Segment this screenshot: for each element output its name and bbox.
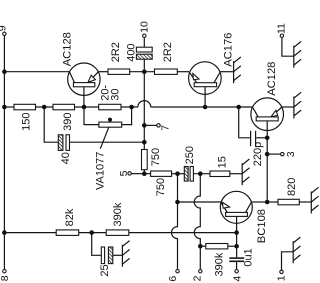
wire terminal 10 to capacitor 400	[143, 37, 145, 47]
svg-text:220p: 220p	[252, 142, 264, 166]
node A junction bus/collector T1	[2, 69, 7, 74]
wire 0u1 to terminal 4	[236, 262, 238, 269]
wire BC108 collector to node K	[252, 201, 268, 203]
svg-text:15: 15	[216, 156, 228, 168]
svg-text:VA1077: VA1077	[94, 152, 106, 190]
capacitor 250u electrolytic	[184, 167, 188, 182]
leader line VA1077	[100, 127, 109, 149]
terminal 9	[3, 32, 6, 35]
capacitor 40u electrolytic	[58, 135, 63, 151]
node I junction	[265, 136, 270, 141]
wire 2R2 to T2 emitter	[177, 71, 189, 73]
wire 750 to node O	[172, 173, 185, 175]
resistor 390k (upper)	[106, 230, 129, 236]
svg-text:11: 11	[276, 23, 288, 34]
thermistor VA1077 branch wires	[84, 107, 99, 125]
svg-text:6: 6	[167, 276, 179, 282]
wire 25u to chassis	[113, 254, 123, 256]
node R junction 390k lower	[198, 244, 203, 249]
terminal 5	[128, 172, 131, 175]
svg-text:390: 390	[62, 113, 74, 131]
wire capacitor 400 to node X	[143, 59, 145, 72]
node C junction bus/82k	[2, 230, 7, 235]
terminal 7	[157, 124, 160, 127]
svg-text:9: 9	[0, 25, 9, 31]
wire to terminal 3	[267, 153, 280, 155]
node P junction 250/15/term2 line	[198, 171, 203, 176]
node Q junction BC108 emitter	[175, 200, 180, 205]
wire terminal 2 line	[194, 174, 200, 270]
terminal 8	[3, 270, 6, 273]
svg-text:390k: 390k	[112, 202, 124, 226]
node G junction base T2	[203, 105, 208, 110]
resistor 15	[210, 171, 230, 177]
wire 25u branch	[92, 233, 102, 256]
node H junction 220p drop	[236, 105, 241, 110]
resistor 2R2 (second)	[155, 69, 178, 74]
svg-text:82k: 82k	[64, 208, 76, 226]
wire 15 to chassis	[230, 173, 242, 175]
svg-text:2R2: 2R2	[162, 42, 174, 62]
transistor Q4 BC108	[220, 191, 252, 232]
node X output junction	[142, 69, 147, 74]
terminal 2	[199, 270, 202, 273]
terminal 4	[235, 270, 238, 273]
svg-text:8: 8	[0, 275, 11, 281]
node T junction BC108 base	[234, 230, 239, 235]
wire 390k lower to node U	[228, 245, 237, 247]
wire bus to T1 collector	[4, 71, 69, 73]
svg-text:2R2: 2R2	[110, 42, 122, 62]
wire to terminal 7	[144, 124, 157, 126]
svg-text:750: 750	[155, 178, 167, 196]
node U junction BC108 out/0u1	[234, 244, 239, 249]
svg-text:7: 7	[159, 125, 171, 131]
wire bus to 150	[4, 106, 14, 108]
capacitor C1 400u electrolytic	[136, 47, 152, 52]
svg-text:BC108: BC108	[256, 209, 268, 243]
wire 750 to node N	[143, 170, 145, 174]
wire T3 emitter to chassis	[282, 106, 294, 108]
chassis ground (T2)	[234, 57, 241, 83]
chassis ground (terminal 11)	[294, 42, 301, 68]
wire 82k to node S	[79, 232, 107, 234]
wire 2R2 to node X	[130, 71, 155, 73]
svg-text:10: 10	[139, 21, 151, 33]
node K junction BC108 collector/820	[265, 200, 270, 205]
chassis ground (15)	[242, 159, 249, 185]
svg-text:400: 400	[126, 43, 138, 61]
terminal 6	[176, 270, 179, 273]
svg-text:1: 1	[276, 275, 288, 281]
resistor 750 (horizontal)	[144, 173, 150, 175]
svg-text:40: 40	[60, 152, 72, 164]
node S junction 82k/390k/25u	[89, 230, 94, 235]
svg-text:0u1: 0u1	[243, 248, 255, 266]
svg-text:150: 150	[21, 113, 33, 131]
node F junction 20-30/VA1077	[129, 105, 134, 110]
wire 220p branch	[239, 107, 250, 138]
wire 20-30 to node F	[121, 106, 138, 108]
capacitor 220p	[250, 131, 252, 146]
wire output rail	[143, 72, 145, 150]
svg-text:5: 5	[118, 170, 130, 176]
svg-text:390k: 390k	[214, 252, 226, 276]
wire 40u to output rail	[70, 141, 145, 143]
resistor 82k	[56, 230, 78, 236]
svg-text:820: 820	[286, 178, 298, 196]
wire 820 to chassis	[299, 201, 311, 203]
node O junction 750/250/term6 line	[175, 171, 180, 176]
resistor 2R2 (first)	[108, 69, 130, 74]
resistor 390k (lower)	[206, 244, 228, 249]
transistor Q1 AC128	[68, 63, 100, 107]
wire left supply bus	[3, 36, 5, 270]
svg-text:4: 4	[232, 276, 244, 282]
svg-text:2: 2	[191, 275, 203, 281]
wire 250 to node P	[193, 173, 210, 175]
svg-text:AC128: AC128	[61, 32, 73, 66]
transistor Q3 AC128	[251, 98, 284, 202]
wire terminal 1 to chassis	[282, 252, 294, 270]
svg-text:250: 250	[184, 146, 196, 164]
resistor 820	[278, 199, 299, 205]
wire hop over output rail	[138, 101, 151, 107]
node B junction bus/150	[2, 105, 7, 110]
capacitor 25u electrolytic	[101, 247, 104, 264]
svg-text:AC176: AC176	[222, 33, 234, 67]
svg-text:AC128: AC128	[266, 62, 278, 96]
resistor 750 (vertical)	[142, 150, 148, 170]
node D junction 150/390/40u	[42, 105, 47, 110]
wire terminal 11 to chassis	[282, 37, 294, 56]
node N junction term5/750	[142, 171, 147, 176]
resistor 390	[53, 104, 75, 110]
transistor Q2 AC176	[189, 62, 222, 107]
thermistor VA1077	[99, 122, 122, 127]
wire 390 to T1 base node	[75, 106, 99, 108]
node E junction base T1	[82, 105, 87, 110]
node M junction 40u/rail	[142, 140, 147, 145]
wire terminal 5 to node N	[131, 173, 144, 175]
wire node K to 820	[267, 201, 278, 203]
svg-text:3: 3	[285, 151, 297, 157]
wire BC108 line down	[236, 233, 238, 258]
wire bus to 82k	[4, 232, 56, 234]
resistor 20-30	[99, 104, 121, 110]
resistor 150	[14, 104, 36, 110]
svg-text:750: 750	[150, 148, 162, 166]
wire BC108 emitter	[178, 201, 221, 203]
wire T1 emitter to 2R2	[98, 71, 108, 73]
wire 150 to 390	[36, 106, 54, 108]
chassis ground (25u)	[122, 241, 129, 267]
wire 390k to BC108 base	[129, 232, 237, 234]
wire terminal 6 line	[172, 174, 178, 270]
terminal 10	[143, 34, 146, 37]
capacitor 0u1	[229, 257, 244, 259]
chassis ground (820)	[311, 187, 318, 213]
svg-text:30: 30	[109, 89, 121, 101]
svg-text:25: 25	[99, 264, 111, 276]
terminal 3	[281, 152, 284, 155]
chassis ground (T3)	[294, 92, 301, 118]
wire T2 collector to chassis	[220, 71, 233, 73]
node L junction terminal 7	[142, 123, 147, 128]
chassis ground (terminal 1)	[293, 237, 300, 263]
wire node F to T2 base and T3	[151, 106, 253, 108]
terminal 11	[280, 34, 283, 37]
wire node R to 390k lower	[200, 245, 206, 247]
wire 220p to node I	[256, 137, 267, 139]
terminal 1	[280, 270, 283, 273]
wire 40u bootstrap branch	[44, 107, 58, 142]
node J junction terminal 3	[265, 152, 270, 157]
